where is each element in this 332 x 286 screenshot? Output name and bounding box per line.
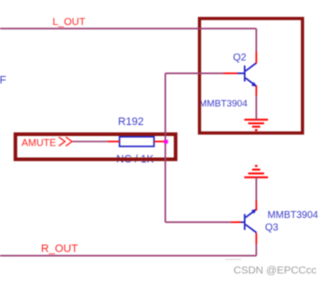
- junction (resistor to AMUTE net): [164, 140, 168, 144]
- transistor Q2: [238, 63, 257, 87]
- Q3 emitter arrowhead: [251, 209, 256, 214]
- pin Q3 collector: [255, 233, 257, 244]
- svg-text:MMBT3904: MMBT3904: [199, 97, 247, 108]
- wire Q2 emitter to ground: [255, 96, 257, 120]
- Q2 emitter arrowhead: [251, 82, 256, 87]
- pin Q3 base: [231, 221, 241, 223]
- power ground GND (above Q3, flipped): [244, 166, 268, 177]
- svg-text:Q2: Q2: [233, 53, 247, 64]
- wire R_OUT horizontal: [0, 255, 256, 257]
- svg-text:MMBT3904: MMBT3904: [268, 210, 319, 221]
- wire Q3 collector down: [255, 244, 257, 256]
- svg-text:R_OUT: R_OUT: [41, 243, 78, 255]
- ground (under Q2): [244, 120, 268, 130]
- transistor Q3: [238, 209, 257, 232]
- svg-text:CSDN @EPCCcc: CSDN @EPCCcc: [234, 265, 317, 277]
- wire Q3 base horizontal: [165, 221, 231, 223]
- pin R192.1: [108, 141, 120, 143]
- watermark line: [225, 259, 241, 261]
- wire vertical AMUTE net: [164, 73, 166, 222]
- highlight box Q2: [200, 19, 303, 134]
- svg-text:Q3: Q3: [265, 222, 279, 233]
- wire L_OUT vertical to Q2 collector: [255, 29, 257, 52]
- resistor R192: [120, 137, 155, 147]
- wire GND to Q3 emitter: [255, 177, 257, 200]
- pin Q2 collector: [255, 52, 257, 64]
- svg-text:F: F: [0, 75, 7, 87]
- pin R192.2: [154, 141, 166, 143]
- port chevron >>: [59, 137, 72, 146]
- pin Q3 emitter: [255, 201, 257, 211]
- wire L_OUT horizontal: [0, 28, 256, 30]
- svg-text:AMUTE: AMUTE: [22, 138, 57, 149]
- pin Q2 emitter: [255, 86, 257, 96]
- pin Q2 base: [224, 72, 238, 74]
- svg-text:R192: R192: [118, 116, 144, 128]
- wire Q2 base horizontal: [165, 72, 223, 74]
- wire AMUTE port to resistor: [73, 141, 109, 143]
- highlight box AMUTE: [15, 134, 175, 159]
- svg-text:L_OUT: L_OUT: [53, 17, 86, 28]
